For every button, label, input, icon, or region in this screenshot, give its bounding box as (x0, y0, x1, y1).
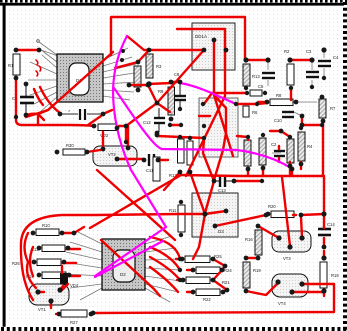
resistor bank vertical r_d (298, 132, 313, 161)
IC box DD1B (mid-right outline box) (199, 98, 238, 157)
resistor R10b tall below (169, 205, 185, 232)
resistor R13L (31, 245, 65, 252)
svg-text:R13: R13 (252, 74, 260, 79)
IC box DD1A (top-center outline box) (192, 23, 235, 70)
wire big diagonal L2 through IC2 (97, 170, 175, 296)
svg-text:VD2: VD2 (100, 133, 109, 138)
resistor R7 vertical hatched (319, 99, 336, 118)
resistor R17 vertical small (153, 157, 160, 181)
IC DD1 (top-left, stippled) (57, 54, 103, 102)
resistor R30 (63, 143, 85, 155)
wire top loop (111, 17, 245, 59)
wire VT2 to C11 (87, 126, 180, 190)
svg-text:R11: R11 (169, 208, 177, 213)
svg-text:R21: R21 (222, 280, 230, 285)
resistor R13 vertical hatched below pad 246,60 (243, 64, 260, 86)
svg-text:R8: R8 (276, 93, 282, 98)
wire bottom-center stack zigzag (176, 259, 227, 292)
svg-text:C13: C13 (218, 188, 226, 193)
wire lead lines misc (268, 52, 324, 153)
transistor VT2 (93, 146, 137, 166)
svg-text:R18: R18 (331, 273, 339, 278)
resistor R26L (12, 259, 61, 266)
capacitor C3 (306, 49, 319, 77)
svg-text:VD4: VD4 (70, 283, 79, 288)
svg-text:DD1A: DD1A (195, 34, 207, 39)
wire magenta 4 from C8 pad (180, 83, 236, 104)
resistor R24 (196, 267, 232, 274)
resistor R20 horizontal (268, 204, 294, 218)
resistor R8 horizontal (270, 93, 293, 106)
wire magenta 1 long curve (113, 36, 166, 227)
wire big diagonal L1 (90, 175, 181, 228)
capacitor C14 (318, 222, 335, 235)
capacitor C5 (258, 73, 275, 89)
transistor VT3 (272, 231, 311, 261)
wire claw fan near IC1 bottom (25, 87, 60, 124)
wire airwire fan IC1 left (28, 49, 57, 112)
wire airwire fan IC2 right (145, 236, 180, 302)
svg-text:R20: R20 (268, 204, 276, 209)
wire long horizontal bus y=214 (21, 214, 205, 300)
svg-text:C3: C3 (306, 49, 312, 54)
svg-text:R30: R30 (66, 143, 74, 148)
svg-text:R1: R1 (8, 63, 14, 68)
resistor R22 (196, 289, 220, 302)
wire box A inner verticals and diagonals (157, 29, 233, 176)
resistor R19 vertical (243, 262, 261, 288)
wire right column verticals (215, 88, 324, 296)
wire y175 horizontal (181, 175, 237, 176)
svg-text:R24: R24 (224, 268, 232, 273)
node marker top-left (37, 40, 40, 43)
svg-text:R7: R7 (330, 106, 336, 111)
resistor R15L (26, 272, 66, 279)
IC DD2 (bottom-center, stippled) (102, 239, 145, 290)
svg-text:R3: R3 (156, 64, 162, 69)
wire zigzag center-left (119, 85, 170, 126)
resistor R12 (169, 141, 193, 178)
wire airwire fan IC1 right (103, 48, 140, 100)
svg-text:R26: R26 (12, 261, 20, 266)
resistor R2 vertical (top right col) (284, 49, 294, 85)
svg-text:C2: C2 (271, 142, 277, 147)
diode VD2 (98, 124, 116, 138)
resistor R9 vertical hatched (158, 87, 175, 115)
wire right top pads (212, 60, 312, 104)
svg-text:R27: R27 (70, 320, 78, 325)
resistor bank vertical r_a (244, 140, 251, 166)
svg-text:VT4: VT4 (278, 301, 286, 306)
svg-text:R16: R16 (245, 237, 253, 242)
wire red pin hooks left of IC1 (36, 60, 41, 76)
capacitor C2 under IC1 (62, 108, 101, 120)
wire right mid block (237, 116, 322, 176)
wire left column bus (16, 50, 112, 126)
svg-text:R6: R6 (252, 110, 258, 115)
wire mid horizontals (115, 50, 204, 138)
wire bottom-left rows links (56, 227, 93, 314)
transistor VT1 (29, 284, 69, 312)
wire second top horizontal into box A (127, 36, 204, 50)
inner solid black frame top and left bars (0, 3, 344, 6)
transistor VT4 (272, 274, 308, 306)
svg-text:VT1: VT1 (38, 307, 46, 312)
wire bottom long line (93, 284, 334, 313)
svg-text:R10: R10 (42, 223, 50, 228)
resistor R21 (186, 277, 230, 285)
resistor R27 (61, 310, 87, 325)
resistor R10L (36, 223, 59, 236)
svg-text:R22: R22 (203, 297, 211, 302)
resistor R25 (185, 254, 222, 263)
wire node fan (190, 172, 226, 259)
wire magenta 2 crossing IC2 (95, 227, 166, 276)
wire airwire fan IC2 left (64, 232, 102, 300)
resistor R18 vertical (320, 262, 339, 288)
wire bottom-left arcs (25, 233, 37, 288)
svg-text:VT3: VT3 (283, 256, 291, 261)
svg-text:R2: R2 (284, 49, 290, 54)
svg-text:C14: C14 (327, 222, 335, 227)
resistor R5b small vertical (243, 106, 258, 117)
wire magenta 3 second IC2 crossing (95, 241, 163, 277)
IC box DD1C (center-bottom outline box) (192, 193, 238, 237)
svg-text:C10: C10 (274, 118, 282, 123)
wire C13 row links (203, 133, 262, 213)
resistor R5 vertical (134, 66, 141, 87)
capacitor C13 (213, 176, 234, 193)
svg-text:C5: C5 (258, 84, 264, 89)
resistor R16 vertical right of box C (245, 230, 262, 255)
svg-text:C12: C12 (143, 120, 151, 125)
wire magenta 5 long diagonal (114, 88, 291, 168)
svg-text:R9: R9 (158, 89, 164, 94)
wire IC2 right fan arcs (150, 237, 180, 292)
resistor bank vertical r_c (287, 139, 294, 163)
resistor R3 vertical (146, 54, 162, 78)
capacitor C10 (274, 112, 294, 123)
resistor R1 (8, 54, 20, 75)
svg-text:D2: D2 (120, 272, 126, 277)
node pads (14, 48, 19, 53)
diode VD4 black (60, 273, 79, 288)
wire VT1 area (38, 266, 68, 308)
svg-text:R19: R19 (253, 268, 261, 273)
wire VT4 bottom link (246, 258, 324, 295)
capacitor C8 (174, 72, 186, 107)
capacitor C11 (146, 154, 154, 173)
capacitor C1 (12, 86, 34, 113)
wire airwire fan IC1 top (39, 42, 58, 56)
svg-text:C4: C4 (333, 55, 339, 60)
capacitor C12 (143, 108, 165, 132)
resistor R6 small row (250, 90, 262, 96)
resistor R11 (178, 139, 185, 163)
capacitor C2 small left (271, 142, 285, 156)
svg-text:R4: R4 (307, 144, 313, 149)
svg-text:D3: D3 (218, 229, 224, 234)
resistor bank vertical r_b (259, 138, 266, 165)
capacitor C4 (318, 55, 339, 66)
wire diagonal through IC1 (26, 52, 113, 117)
svg-text:VT2: VT2 (108, 152, 116, 157)
